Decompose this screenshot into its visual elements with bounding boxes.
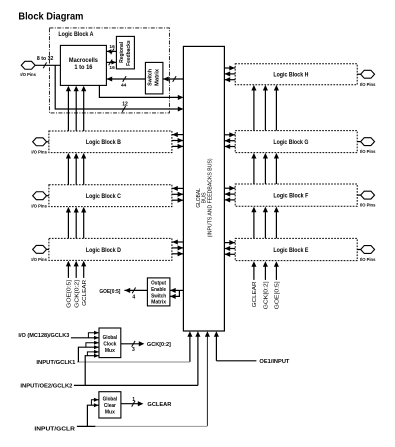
wire macrocells output to global bus <box>99 85 182 97</box>
svg-text:44: 44 <box>121 82 127 88</box>
wire io pins F stub <box>357 194 361 196</box>
wire block E feedback to bus 1 <box>224 248 235 250</box>
wire block F feedback to bus 1 <box>224 193 235 195</box>
svg-text:16: 16 <box>109 44 115 50</box>
svg-text:Logic Block D: Logic Block D <box>86 247 121 254</box>
wire INPUT/GCLK1 riser to bus <box>189 336 191 362</box>
global clear mux block <box>99 392 121 418</box>
svg-text:GOE[0:5]: GOE[0:5] <box>99 289 120 295</box>
wire block G feedback to bus 2 <box>224 146 235 148</box>
svg-text:Logic Block F: Logic Block F <box>273 193 308 200</box>
wire block D feedback to bus 1 <box>172 247 184 249</box>
wire bus to block H <box>224 67 235 69</box>
io pins symbol G <box>361 138 375 146</box>
wire global vertical left 1 (below D) <box>67 266 69 278</box>
wire global vertical left 1 (A-B) <box>67 90 69 131</box>
svg-text:Macrocells: Macrocells <box>69 57 98 64</box>
logic block E <box>235 238 357 260</box>
wire bus to block C <box>172 187 184 189</box>
wire block B feedback to bus 2 <box>172 145 184 147</box>
wire clock mux output GCK (3) <box>121 343 140 345</box>
wire bus to oesm stub 2 <box>170 290 180 296</box>
svg-text:8 to 32: 8 to 32 <box>37 56 54 62</box>
svg-text:I/O Pins: I/O Pins <box>20 72 36 77</box>
macrocells block <box>60 45 106 85</box>
wire GCLK3 to clock mux <box>71 337 99 339</box>
logic block G <box>235 131 357 153</box>
svg-text:I/O Pins: I/O Pins <box>360 149 376 154</box>
svg-text:Matrix: Matrix <box>154 69 160 86</box>
wire global vertical left 1 (C-D) <box>67 212 69 239</box>
svg-text:I/O Pins: I/O Pins <box>360 203 376 208</box>
wire io pins H stub <box>357 73 361 75</box>
svg-text:I/O Pins: I/O Pins <box>31 203 47 208</box>
wire block G feedback to bus 1 <box>224 140 235 142</box>
wire OE1/INPUT riser to bus <box>215 336 217 361</box>
wire global vertical right 1 (G-F) <box>253 158 255 184</box>
wire oesm output GOE (4) <box>124 289 147 291</box>
wire global vertical right 3 (F-E) <box>275 212 277 239</box>
svg-text:Global: Global <box>103 335 118 341</box>
io pins symbol F <box>361 191 375 199</box>
svg-text:3: 3 <box>132 347 135 353</box>
svg-text:I/O Pins: I/O Pins <box>31 257 47 262</box>
svg-text:GCK[0:2]: GCK[0:2] <box>74 279 80 308</box>
svg-text:Switch: Switch <box>151 293 166 299</box>
wire global vertical left 3 (C-D) <box>83 212 85 239</box>
wire regional feedbacks to macrocells (16) <box>106 50 116 52</box>
svg-text:OE1/INPUT: OE1/INPUT <box>259 359 289 365</box>
io pins symbol C <box>33 192 47 200</box>
svg-text:GCLEAR: GCLEAR <box>147 402 172 408</box>
logic block F <box>235 184 357 206</box>
svg-text:Logic Block H: Logic Block H <box>273 72 308 79</box>
svg-text:Enable: Enable <box>151 287 166 293</box>
svg-text:Mux: Mux <box>105 348 115 354</box>
wire global vertical right 3 (below E) <box>275 266 277 280</box>
wire global vertical right 3 (H-G) <box>275 90 277 131</box>
wire block B feedback to bus 1 <box>172 140 184 142</box>
wire bus to block E <box>224 242 235 244</box>
wire block C feedback to bus 2 <box>172 199 184 201</box>
svg-text:I/O Pins: I/O Pins <box>31 149 47 154</box>
wire GCLR riser to clear mux <box>87 405 99 426</box>
wire global bus to switch matrix <box>163 78 184 80</box>
svg-text:GCK[0:2]: GCK[0:2] <box>264 281 270 310</box>
wire pin feedback to global bus (12) <box>55 65 182 109</box>
wire global vertical right 2 (H-G) <box>264 90 266 131</box>
wire block H feedback to bus 2 <box>224 79 235 81</box>
svg-text:I/O (MC128)/GCLK3: I/O (MC128)/GCLK3 <box>18 333 69 339</box>
wire global vertical left 1 (B-C) <box>67 158 69 185</box>
logic block A container <box>49 28 169 113</box>
svg-text:Mux: Mux <box>105 410 115 416</box>
wire global vertical right 2 (G-F) <box>264 158 266 184</box>
io pins symbol D <box>33 245 47 253</box>
logic block D <box>49 238 172 260</box>
svg-text:I/O Pins: I/O Pins <box>360 82 376 87</box>
wire macrocells to regional feedbacks (16) <box>106 61 116 63</box>
wire global vertical right 2 (F-E) <box>264 212 266 239</box>
svg-text:GCK[0:2]: GCK[0:2] <box>147 342 171 348</box>
wire io pins B stub <box>47 141 49 143</box>
wire OE1/INPUT horizontal <box>216 360 256 362</box>
wire io pins G stub <box>357 141 361 143</box>
logic block B <box>49 131 172 153</box>
logic block C <box>49 185 172 207</box>
global bus <box>183 46 224 331</box>
wire GCLR elbow to clear mux <box>91 400 99 406</box>
svg-text:4: 4 <box>132 294 135 300</box>
svg-text:Regional: Regional <box>119 41 125 62</box>
svg-text:Logic Block A: Logic Block A <box>58 31 93 38</box>
wire global vertical right 1 (F-E) <box>253 212 255 239</box>
wire global vertical left 3 (below D) <box>83 266 85 278</box>
wire bus to block D <box>172 241 184 243</box>
wire global vertical left 2 (C-D) <box>75 212 77 239</box>
wire GCLK3 elbow to clock mux <box>88 333 99 338</box>
wire global vertical left 2 (A-B) <box>75 90 77 131</box>
svg-text:Switch: Switch <box>147 69 153 86</box>
wire clear mux output GCLEAR (1) <box>121 403 138 405</box>
svg-text:Clear: Clear <box>104 403 117 409</box>
wire block E feedback to bus 2 <box>224 253 235 255</box>
svg-text:Logic Block B: Logic Block B <box>86 139 121 146</box>
switch matrix block <box>145 62 163 94</box>
wire bus to oesm <box>170 289 184 291</box>
wire bus to block F <box>224 187 235 189</box>
wire INPUT/GCLR horizontal <box>77 425 96 427</box>
wire INPUT/OE2/GCLK2 horizontal <box>74 384 198 386</box>
wire global vertical right 1 (below E) <box>253 266 255 280</box>
svg-text:16: 16 <box>109 65 115 71</box>
wire INPUT/GCLR riser to bus <box>206 336 208 426</box>
svg-text:INPUT/OE2/GCLK2: INPUT/OE2/GCLK2 <box>20 384 72 390</box>
svg-text:Logic Block G: Logic Block G <box>273 139 308 146</box>
svg-text:I/O Pins: I/O Pins <box>360 257 376 262</box>
svg-text:INPUT/GCLR: INPUT/GCLR <box>34 426 75 432</box>
wire INPUT/OE2/GCLK2 riser to bus <box>197 336 199 385</box>
svg-text:GOE[0:5]: GOE[0:5] <box>67 279 73 308</box>
svg-text:Feedbacks: Feedbacks <box>126 40 132 66</box>
wire global vertical left 2 (B-C) <box>75 158 77 185</box>
io pins symbol H <box>361 70 375 78</box>
svg-text:Logic Block C: Logic Block C <box>86 193 121 200</box>
wire io pins A to macrocells <box>35 64 60 66</box>
wire global vertical right 1 (H-G) <box>253 90 255 131</box>
svg-text:1: 1 <box>132 397 135 403</box>
svg-text:GCLEAR: GCLEAR <box>252 281 258 307</box>
io pins symbol E <box>361 246 375 254</box>
wire GCLK2 riser to clock mux <box>85 356 99 386</box>
logic block H <box>235 64 357 85</box>
svg-text:12: 12 <box>122 102 128 108</box>
wire global vertical right 3 (G-F) <box>275 158 277 184</box>
wire bus to block B <box>172 134 184 136</box>
svg-text:GCLEAR: GCLEAR <box>82 280 88 306</box>
wire GCLK2 elbow to clock mux <box>87 352 99 356</box>
wire GCLK1 riser to clock mux <box>78 347 99 362</box>
wire INPUT/GCLK1 horizontal <box>77 361 190 363</box>
svg-text:INPUT/GCLK1: INPUT/GCLK1 <box>36 360 75 366</box>
io pins symbol A <box>21 61 35 69</box>
wire io pins E stub <box>357 249 361 251</box>
svg-text:Output: Output <box>151 281 166 287</box>
svg-text:Block Diagram: Block Diagram <box>18 11 83 22</box>
wire io pins D stub <box>47 248 49 250</box>
wire io pins C stub <box>47 195 49 197</box>
wire block H feedback to bus 1 <box>224 73 235 75</box>
wire global vertical left 3 (B-C) <box>83 158 85 185</box>
global clock mux block <box>99 328 121 358</box>
wire global vertical left 3 (A-B) <box>83 90 85 131</box>
io pins symbol B <box>33 138 47 146</box>
wire global vertical left 2 (below D) <box>75 266 77 278</box>
wire block F feedback to bus 2 <box>224 199 235 201</box>
wire global vertical right 2 (below E) <box>264 266 266 280</box>
svg-text:Logic Block E: Logic Block E <box>273 247 309 254</box>
svg-text:GOE[0:5]: GOE[0:5] <box>275 281 281 310</box>
wire GCLK1 elbow to clock mux <box>86 343 99 348</box>
svg-text:(INPUTS AND FEEDBACKS BUS): (INPUTS AND FEEDBACKS BUS) <box>207 158 213 237</box>
wire switch matrix to macrocells (44) <box>106 78 145 80</box>
svg-text:Global: Global <box>103 397 118 403</box>
wire block C feedback to bus 1 <box>172 193 184 195</box>
wire block D feedback to bus 2 <box>172 253 184 255</box>
output enable switch matrix block <box>147 278 170 306</box>
svg-text:Matrix: Matrix <box>151 300 166 306</box>
regional feedbacks block <box>116 36 134 69</box>
svg-text:Clock: Clock <box>103 342 116 348</box>
wire bus to block G <box>224 134 235 136</box>
svg-text:1 to 16: 1 to 16 <box>74 64 92 71</box>
